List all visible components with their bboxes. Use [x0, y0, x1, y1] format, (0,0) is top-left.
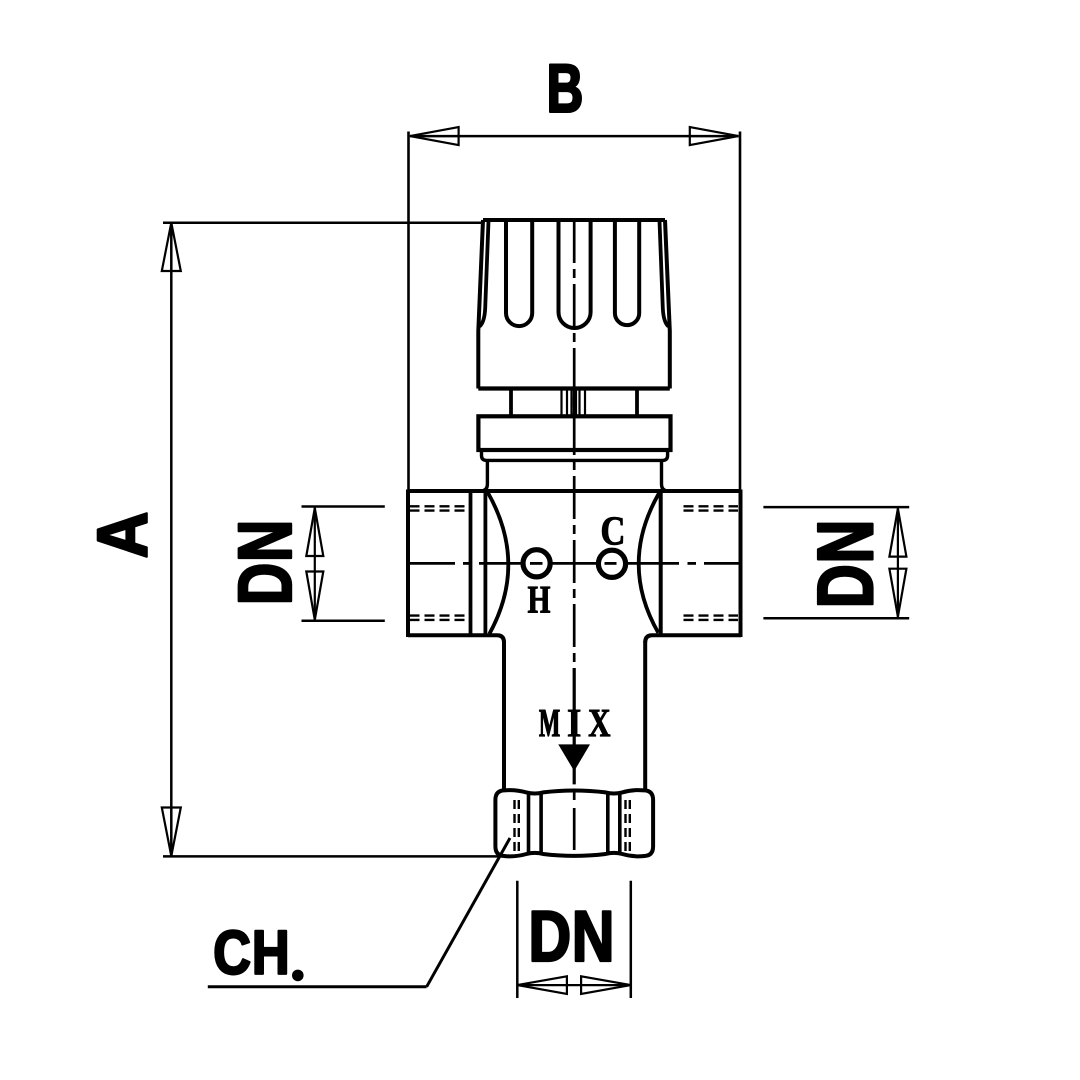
dimension A bottom extension line [163, 855, 512, 858]
right DN label [818, 524, 873, 605]
dimension A label [98, 513, 147, 556]
nut facet line pair right [606, 794, 610, 854]
bottom DN left arrowhead [517, 976, 567, 994]
left DN top extension line [302, 505, 385, 508]
label H [528, 587, 550, 613]
bottom DN label [533, 911, 611, 961]
left port outer edge [406, 490, 410, 638]
knob right inner rib line [660, 221, 669, 327]
CH. underline [208, 985, 427, 988]
knob left outer side [478, 220, 483, 389]
CH. leader line [427, 838, 510, 987]
stem neck left side [509, 391, 513, 417]
dimension A line [170, 223, 173, 856]
CH. label [215, 930, 286, 974]
bottom DN right extension line [630, 881, 633, 998]
bottom DN left extension line [516, 881, 519, 998]
right DN dimension line [897, 507, 899, 618]
body top line [408, 489, 741, 493]
dimension B right arrowhead [690, 127, 739, 145]
cold port circle C [598, 550, 625, 577]
knob left inner rib line [480, 221, 489, 327]
body left concave arc [488, 493, 509, 634]
knob groove slot 1 [506, 220, 532, 326]
stem neck right side [635, 391, 639, 417]
adjuster flange [478, 416, 670, 450]
nut facet line pair left [527, 794, 531, 854]
bonnet right side [662, 460, 669, 491]
dimension B right extension line [739, 132, 742, 492]
dimension A bottom arrowhead [162, 808, 181, 857]
left DN top arrowhead [306, 508, 323, 556]
knob groove slot 3 [615, 220, 639, 325]
right port outer edge [739, 490, 743, 638]
dimension B label [550, 65, 581, 112]
right DN top arrowhead [889, 509, 906, 557]
left DN dimension line [314, 507, 316, 621]
nut thread dashes left [515, 800, 519, 856]
bottom DN dimension line [517, 984, 631, 986]
knob bottom edge [478, 386, 670, 390]
left port thread dashes [410, 506, 467, 620]
knob groove slot 2 [559, 220, 591, 328]
body bottom line left [408, 635, 504, 642]
right port thread dashes [684, 506, 739, 620]
left DN label [239, 524, 291, 601]
outlet pipe right side [643, 641, 647, 789]
stem spline hatch [562, 391, 586, 417]
bottom DN right arrowhead [581, 976, 631, 994]
right DN bottom arrowhead [889, 569, 906, 617]
nut outline [495, 790, 653, 856]
body right concave arc [639, 493, 659, 633]
left DN bottom extension line [302, 619, 385, 622]
flow arrowhead [558, 744, 590, 771]
left DN bottom arrowhead [306, 572, 323, 620]
label MIX [539, 710, 610, 736]
vertical centerline in nut [573, 790, 576, 856]
knob right outer side [665, 220, 670, 389]
body bottom line right [645, 635, 741, 642]
right DN bottom extension line [763, 617, 909, 620]
dimension B line [410, 135, 739, 138]
dimension B left extension line [407, 132, 410, 492]
nut thread dashes right [626, 800, 630, 856]
right DN top extension line [763, 506, 909, 509]
body left edge line [483, 491, 487, 635]
CH. period dot [292, 970, 304, 982]
dimension B left arrowhead [410, 127, 459, 145]
left port inner line [469, 491, 473, 635]
horizontal centerline [410, 562, 741, 565]
vertical centerline upper [573, 220, 576, 668]
label C [602, 517, 623, 545]
hot port circle H [523, 550, 550, 577]
knob top edge [483, 218, 665, 222]
body right edge line [659, 491, 663, 635]
flange lower band [482, 450, 668, 460]
bonnet left side [480, 460, 487, 491]
dimension A top arrowhead [162, 223, 181, 271]
outlet pipe left side [502, 641, 506, 789]
flow arrow line [573, 668, 576, 784]
dimension A top extension line [163, 221, 483, 224]
